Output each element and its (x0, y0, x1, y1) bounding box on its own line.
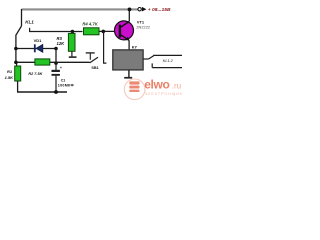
contact KL1.2 (output contact) (143, 55, 182, 67)
svg-text:+ 08...15B: + 08...15B (148, 7, 171, 13)
svg-text:100МКФ: 100МКФ (58, 83, 75, 87)
svg-text:R4 4.7K: R4 4.7K (82, 22, 98, 27)
watermark logo bars (129, 81, 139, 92)
wire: lower throw (152, 67, 182, 69)
contact bar under R3 (69, 56, 77, 58)
resistor R3 12K (vertical) (71, 32, 73, 34)
supply arrow (142, 7, 147, 12)
node C1 bottom (54, 90, 58, 94)
resistor R2 7.5K (horizontal) (35, 59, 50, 65)
wire: R1 top lead (16, 62, 18, 67)
supply terminal circle (138, 8, 141, 11)
wire: collector to rail (128, 9, 130, 21)
background (0, 0, 186, 100)
wire: SB1 right terminal vertical (104, 31, 107, 63)
svg-text:KL1: KL1 (25, 20, 34, 25)
resistor R4 4.7K (horizontal) (84, 28, 100, 35)
contact blade (90, 57, 98, 63)
svg-text:R1: R1 (7, 69, 13, 74)
node base/SB1 junction (102, 30, 106, 34)
svg-text:2N2222: 2N2222 (136, 24, 150, 29)
node collector/rail junction (128, 7, 132, 11)
wire: upper throw (153, 54, 182, 56)
resistor R1 1.5K (vertical) (15, 66, 21, 81)
wire: RC row (16, 61, 90, 63)
capacitor C1 (55, 63, 57, 70)
wire: left corner vertical (21, 9, 23, 26)
wire: diode row (16, 48, 56, 50)
svg-text:1.5K: 1.5K (5, 75, 15, 80)
wire: base node horizontal (29, 31, 83, 33)
contact blade (149, 55, 155, 59)
svg-text:elwo: elwo (144, 77, 169, 91)
node R3 top junction (71, 30, 75, 34)
diode VD1 (34, 44, 36, 52)
node diode right (54, 47, 58, 51)
node left branch (14, 61, 18, 65)
terminal bar under relay (124, 77, 132, 79)
actuator stem (89, 53, 91, 60)
wire: cap node vertical (55, 49, 57, 64)
wire: left branch vertical (15, 35, 17, 63)
watermark elwo.ru logo circle (124, 79, 145, 100)
wire: relay bottom lead (128, 70, 130, 78)
wire: top +V rail (22, 8, 138, 10)
actuator cap (86, 52, 95, 54)
svg-text:ЭЛЕКТРОНЩИК: ЭЛЕКТРОНЩИК (145, 92, 183, 96)
svg-text:12K: 12K (57, 41, 66, 46)
svg-text:KY: KY (132, 45, 138, 49)
contact blade (16, 26, 22, 35)
wire: lower throw stub (151, 63, 153, 67)
wire: common stub (143, 58, 148, 60)
svg-text:R2 7.5K: R2 7.5K (28, 72, 42, 76)
node cap top (54, 61, 58, 65)
transistor VT1 2N2222 (115, 21, 134, 41)
svg-text:KL1.2: KL1.2 (163, 59, 174, 63)
wire: R4 to base (99, 30, 120, 32)
svg-text:C1: C1 (61, 78, 66, 82)
relay coil K (gray box) (113, 50, 143, 70)
contact terminal tick (29, 28, 31, 32)
wire: emitter to relay (128, 40, 130, 50)
switch SB1 (push button) (86, 53, 98, 63)
svg-text:.ru: .ru (172, 81, 181, 90)
node diode left (14, 47, 18, 51)
svg-text:VD1: VD1 (34, 38, 43, 43)
svg-text:SB1: SB1 (91, 66, 98, 70)
contact KL1 (relay contact, top left) (16, 9, 22, 67)
wire: bottom rail (17, 91, 67, 93)
